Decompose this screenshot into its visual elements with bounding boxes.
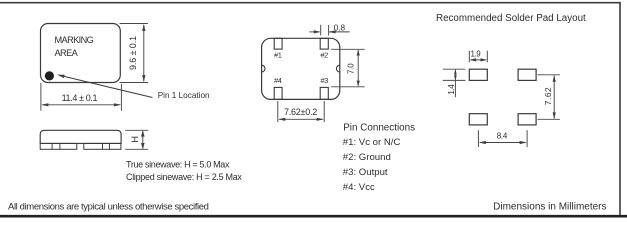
svg-text:0.8: 0.8	[334, 23, 346, 32]
dim H top arrowhead	[141, 130, 145, 136]
solder pad bottom-left	[469, 114, 487, 125]
solder pad top-left	[469, 69, 487, 80]
svg-text:7.62: 7.62	[543, 87, 553, 106]
svg-text:1.4: 1.4	[447, 84, 456, 95]
package top view outline	[41, 24, 121, 83]
dim 8.4 right extension line	[526, 130, 528, 147]
dim 0.8 right extension line	[328, 25, 330, 36]
side view body outline	[40, 130, 121, 143]
dim 1.9 right extension line	[486, 51, 488, 63]
side view left pad group	[40, 143, 77, 149]
dim H top extension line	[125, 129, 148, 131]
svg-text:#3: Output: #3: Output	[343, 167, 388, 178]
dim 8.4 right arrowhead	[520, 141, 527, 144]
svg-text:#2: #2	[320, 51, 328, 60]
dim 8.4 left arrowhead	[479, 141, 486, 144]
dim 7.62 left arrowhead	[278, 118, 285, 121]
right castellation notch	[336, 65, 339, 72]
svg-text:8.4: 8.4	[497, 131, 508, 140]
dim 7.62 pads top extension line	[538, 74, 560, 76]
pin 1 leader arrowhead	[57, 75, 65, 79]
dim 7.0 dimension line	[357, 50, 359, 86]
side view left pad divider 2	[59, 143, 61, 149]
dim 0.8 left arrowhead	[314, 30, 321, 33]
solder pad bottom-right	[518, 114, 536, 125]
dim 1.4 top extension line	[443, 68, 466, 70]
svg-text:Pin 1 Location: Pin 1 Location	[158, 91, 210, 100]
dim 11.4 left arrowhead	[41, 103, 48, 106]
side view left pad divider 1	[51, 143, 53, 149]
pad 4	[274, 87, 282, 99]
dim 7.62 pads bottom extension line	[538, 118, 560, 120]
dim 11.4 dimension line	[43, 104, 120, 106]
dim 1.9 dimension line	[471, 59, 487, 61]
dim 1.4 bottom extension line	[443, 79, 466, 81]
svg-text:#2: Ground: #2: Ground	[343, 152, 391, 163]
dim 1.4 top arrowhead	[454, 70, 457, 75]
dim 11.4 left extension line	[40, 83, 42, 111]
dim H dimension line	[142, 131, 144, 149]
dim 7.62 pads top arrowhead	[553, 75, 556, 82]
dim 9.6 top extension line	[120, 23, 148, 25]
dim 7.62 left extension line	[277, 101, 279, 122]
dim 7.0 bottom extension line	[331, 86, 365, 88]
svg-text:Recommended Solder Pad Layout: Recommended Solder Pad Layout	[436, 13, 586, 24]
dim 11.4 right extension line	[120, 84, 122, 111]
dim 7.0 bottom arrowhead	[357, 81, 360, 87]
dim H bottom arrowhead	[141, 143, 145, 149]
dim 0.8 right arrowhead	[329, 30, 336, 33]
svg-text:Clipped sinewave: H = 2.5 Max: Clipped sinewave: H = 2.5 Max	[126, 172, 242, 182]
pad 2	[320, 38, 328, 49]
svg-text:1.9: 1.9	[470, 50, 481, 59]
dim 1.4 dimension line	[454, 70, 456, 98]
svg-text:H: H	[130, 136, 140, 143]
frame bottom thick border line	[0, 215, 627, 218]
side view right pad divider 2	[108, 143, 110, 149]
dim 7.62 right arrowhead	[317, 118, 324, 121]
dim 1.9 right arrowhead	[481, 58, 488, 61]
dim 8.4 dimension line	[480, 142, 526, 144]
svg-text:#3: #3	[320, 76, 328, 85]
dim 1.4 bottom arrowhead	[454, 75, 457, 80]
svg-text:#4: Vcc: #4: Vcc	[343, 182, 375, 193]
dim 9.6 top arrowhead	[142, 24, 145, 31]
svg-text:AREA: AREA	[55, 48, 79, 58]
svg-text:11.4 ± 0.1: 11.4 ± 0.1	[62, 93, 98, 103]
package bottom view outline	[262, 38, 340, 99]
pad 3	[320, 87, 328, 99]
dim 9.6 bottom arrowhead	[142, 75, 145, 82]
solder pad top-right	[518, 69, 536, 80]
dim 7.62 pads bottom arrowhead	[553, 112, 556, 119]
svg-text:9.6 ± 0.1: 9.6 ± 0.1	[128, 36, 138, 70]
dim 0.8 right arrow line	[329, 31, 350, 33]
dim 7.0 top arrowhead	[357, 50, 360, 56]
pin 1 index dot	[45, 71, 54, 80]
dim H bottom extension line	[125, 148, 148, 150]
dim 9.6 bottom extension line	[120, 82, 148, 84]
side view right pad divider 1	[102, 143, 104, 149]
dim 1.9 left arrowhead	[470, 58, 477, 61]
dim 7.62 right extension line	[323, 101, 325, 122]
svg-text:#1: #1	[274, 51, 282, 60]
side view right pad group	[84, 143, 121, 149]
svg-text:All dimensions are typical unl: All dimensions are typical unless otherw…	[8, 202, 209, 213]
dim 9.6 dimension line	[143, 25, 145, 81]
svg-text:MARKING: MARKING	[55, 35, 94, 45]
dim 0.8 left arrow line	[309, 31, 319, 33]
svg-text:#4: #4	[274, 76, 282, 85]
left castellation notch	[262, 65, 265, 72]
dim 1.9 left extension line	[468, 51, 470, 63]
dim 0.8 left extension line	[320, 25, 322, 36]
svg-text:Pin Connections: Pin Connections	[343, 122, 415, 133]
dim 7.62 pads dimension line	[553, 76, 555, 119]
svg-text:#1: Vc or N/C: #1: Vc or N/C	[343, 137, 401, 148]
pad 1	[274, 38, 282, 49]
dim 7.62 dimension line	[279, 118, 322, 120]
dim 11.4 right arrowhead	[114, 103, 121, 106]
dim 7.0 top extension line	[331, 48, 365, 50]
svg-text:7.62±0.2: 7.62±0.2	[284, 107, 317, 117]
frame right border line	[619, 2, 621, 216]
svg-text:Dimensions in Millimeters: Dimensions in Millimeters	[493, 201, 606, 212]
frame top border line	[0, 2, 621, 4]
svg-text:True sinewave: H = 5.0 Max: True sinewave: H = 5.0 Max	[126, 159, 230, 169]
dim 8.4 left extension line	[477, 130, 479, 147]
pin 1 leader line	[63, 76, 153, 97]
svg-text:7.0: 7.0	[347, 63, 356, 74]
